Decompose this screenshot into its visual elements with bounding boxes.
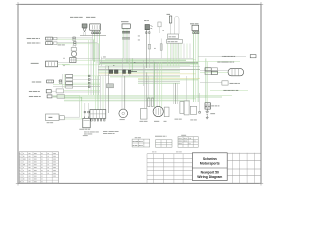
loop wires over fuel gauge <box>175 17 180 35</box>
small sensor top <box>158 22 164 33</box>
extra light harness lines <box>105 59 198 79</box>
horn row <box>32 80 62 84</box>
flasher relay component <box>82 24 87 36</box>
fuel gauge block <box>168 34 179 39</box>
part number note <box>155 135 167 138</box>
rear brake switch row <box>29 89 100 93</box>
regulator drop wires <box>123 28 129 64</box>
centre column drops below fuel blocks <box>172 44 190 59</box>
fuse <box>167 14 172 23</box>
caption under CDI <box>103 131 119 134</box>
starter motor feed wires <box>122 76 125 109</box>
border frame <box>16 2 263 186</box>
key switch drop wires <box>146 30 149 68</box>
title block grid right <box>227 153 261 183</box>
rear brake lamp row <box>222 81 240 85</box>
front turn signal R row <box>27 37 95 41</box>
side ground wire <box>199 93 201 113</box>
rear connector label row <box>217 61 234 64</box>
rear harness connector pair <box>205 68 217 75</box>
fuse lead <box>170 23 172 34</box>
verticals left mid mesh <box>89 40 94 95</box>
rectifier small <box>164 107 170 122</box>
tire label note <box>135 136 141 139</box>
rear bulb cylinder <box>228 69 243 76</box>
tire info table <box>132 139 150 147</box>
spark plug feed wires <box>174 76 187 104</box>
spec table label <box>181 134 186 137</box>
left lower harness wires <box>53 85 100 87</box>
ignition coil drop wires <box>206 58 208 102</box>
spark plug box <box>175 102 184 120</box>
verticals from tail light connector <box>93 31 100 66</box>
relay resistor drop wires <box>144 66 153 108</box>
regulator <box>121 21 130 39</box>
ratio table <box>156 140 173 147</box>
tail light labels <box>70 17 95 18</box>
coil driver box <box>190 106 197 120</box>
rear tail lamp label row <box>222 55 256 58</box>
wire harness horizontal band B <box>98 68 200 76</box>
resistor 1 <box>148 98 150 107</box>
title block grid left <box>147 154 192 183</box>
ground symbol right <box>206 109 209 119</box>
front brake switch row <box>29 95 82 101</box>
rear turn lamp label <box>223 89 238 92</box>
wire color legend table <box>19 152 58 183</box>
ignition tall box <box>184 101 189 115</box>
bulb area wires <box>76 59 100 61</box>
front turn signal L row <box>27 42 99 46</box>
long cross wires to right side <box>53 96 232 101</box>
tail light connector <box>80 24 106 36</box>
svg-text:Wiring Diagram: Wiring Diagram <box>197 175 222 179</box>
notes above title block <box>152 151 182 154</box>
speedometer connector <box>190 23 199 33</box>
svg-text:Motorsports: Motorsports <box>200 161 220 165</box>
caption under battery <box>84 132 99 135</box>
accessory inline resistor <box>154 39 162 59</box>
centre drop wires to CDI <box>84 66 109 117</box>
upper green verticals right of centre <box>168 44 179 67</box>
fuel sender unit <box>46 101 82 123</box>
headlight 4 pin box <box>70 58 76 63</box>
loop wire stub <box>101 57 103 67</box>
headlight assembly <box>31 58 70 67</box>
right bottom connector <box>205 103 219 114</box>
wires to rear right components <box>198 57 248 91</box>
stator drop wires <box>155 62 162 107</box>
junction diode stack <box>63 74 101 88</box>
inline connector blobs <box>103 57 137 88</box>
title block centre box <box>192 153 227 181</box>
starter motor <box>119 109 128 120</box>
speedometer drop wires <box>194 31 199 102</box>
stator magneto <box>153 106 163 121</box>
key switch <box>144 20 153 33</box>
resistor 2 <box>152 98 154 107</box>
key switch inline fuse <box>148 44 150 49</box>
CDI unit <box>90 110 106 121</box>
key switch side notes <box>138 36 140 41</box>
wire harness horizontal band A <box>62 58 200 66</box>
battery <box>79 117 90 137</box>
wire harness horizontal band C <box>110 77 200 83</box>
sender block <box>167 40 183 44</box>
headlight bulb <box>58 44 77 56</box>
starter relay <box>140 109 148 122</box>
harness crossing verticals <box>96 44 154 99</box>
spec table <box>178 137 198 148</box>
